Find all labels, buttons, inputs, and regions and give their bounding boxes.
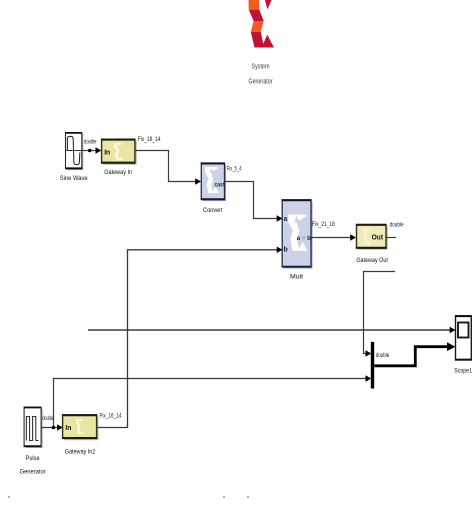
wire Sine Wave -> Gateway In — [82, 147, 102, 153]
wire Mux -> Scope (thick) — [374, 347, 448, 366]
wire Pulse Generator -> Gateway In2 + branch to Mux input 2 — [41, 379, 366, 428]
svg-text:Out: Out — [372, 233, 384, 242]
wire Convert -> Mult a — [225, 182, 278, 219]
svg-text:double: double — [43, 415, 54, 422]
wire dangling -> Mux input 1 — [364, 272, 396, 354]
svg-text:b: b — [284, 246, 288, 253]
System Generator logo U_SYSGEN — [249, 0, 275, 48]
block Mult — [282, 200, 313, 269]
svg-text:Gateway In: Gateway In — [104, 169, 132, 176]
svg-text:Gateway In2: Gateway In2 — [65, 449, 96, 456]
svg-text:cast: cast — [215, 181, 226, 188]
svg-text:Fix_5_4: Fix_5_4 — [227, 166, 242, 173]
block Scope — [455, 316, 472, 360]
svg-text:double: double — [84, 138, 97, 145]
svg-text:Scope1: Scope1 — [454, 367, 472, 374]
page specks — [8, 496, 249, 498]
svg-text:double: double — [390, 222, 404, 229]
svg-text:Generator: Generator — [20, 468, 47, 475]
block Convert — [201, 163, 226, 201]
block Gateway In2 — [62, 415, 98, 440]
svg-text:System: System — [252, 64, 270, 71]
block Gateway In — [101, 139, 137, 165]
wire Gateway Out stub — [386, 237, 396, 239]
block Gateway Out — [356, 225, 388, 250]
svg-text:double: double — [376, 352, 390, 359]
svg-text:Pulse: Pulse — [26, 455, 40, 462]
block Pulse Generator — [24, 407, 43, 448]
svg-text:Convert: Convert — [203, 207, 223, 214]
label Pulse Generator — [20, 455, 47, 476]
wire Gateway In2 -> Mult b — [97, 250, 278, 428]
svg-text:Mult: Mult — [290, 274, 303, 281]
svg-text:a × b: a × b — [297, 235, 311, 242]
svg-text:Gateway Out: Gateway Out — [356, 257, 388, 264]
wire Mult -> Gateway Out — [311, 237, 351, 239]
svg-text:a: a — [284, 216, 288, 223]
label System Generator — [248, 64, 273, 86]
svg-text:Sine Wave: Sine Wave — [60, 175, 88, 182]
wire Gateway In -> Convert — [135, 151, 196, 182]
mux Mux — [371, 342, 374, 389]
svg-text:Fix_16_14: Fix_16_14 — [100, 413, 122, 420]
svg-text:Fix_21_18: Fix_21_18 — [312, 221, 335, 228]
block Sine Wave — [65, 133, 83, 170]
svg-text:Generator: Generator — [248, 79, 273, 86]
svg-text:Fix_18_14: Fix_18_14 — [138, 136, 161, 143]
wire scope line 1 — [88, 329, 451, 331]
svg-text:In: In — [104, 147, 110, 156]
svg-text:In: In — [65, 423, 71, 432]
